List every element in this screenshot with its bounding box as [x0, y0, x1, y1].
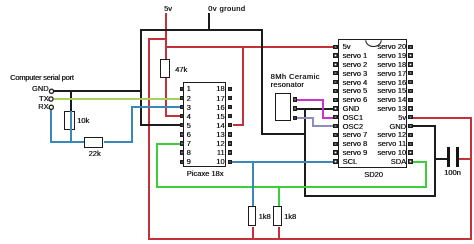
- U2 right pin label servo 20: [361, 42, 406, 52]
- U2 right pin label servo 14: [361, 95, 406, 105]
- U1 label Picaxe 18x: [175, 169, 235, 179]
- value label 22k: [89, 149, 101, 159]
- U2 right pin label servo 15: [361, 86, 406, 96]
- U1 pin 13 stub: [228, 132, 232, 136]
- resistor 47k pull-up: [160, 59, 171, 78]
- resonator X1 8Mh ceramic body: [275, 93, 291, 121]
- U1 pin number 16: [205, 103, 225, 113]
- U2 left pin servo 7 stub: [333, 133, 337, 137]
- U2 left pin SCL stub: [333, 159, 337, 163]
- U2 left pin label servo 2: [343, 60, 368, 70]
- wire ground bottom rail: [304, 195, 436, 197]
- wire resistor R5 bottom to 5v rail: [278, 227, 280, 240]
- U2 right pin label servo 12: [361, 130, 406, 140]
- U2 left pin servo 6 stub: [333, 98, 337, 102]
- U2 left pin label servo 6: [343, 95, 368, 105]
- U2 left pin servo 5 stub: [333, 89, 337, 93]
- wire SDA green rail: [156, 186, 427, 188]
- wire 0v ground stub: [208, 13, 210, 31]
- U2 right pin GND stub: [408, 124, 412, 128]
- U1 pin 8 stub: [180, 150, 184, 154]
- wire capacitor left lead: [434, 158, 447, 160]
- resistor 1k8 SDA pull-up: [273, 206, 282, 226]
- wire resonator bottom pin lead: [296, 117, 314, 119]
- wire ground top rail: [140, 29, 263, 31]
- U1 pin 2 stub: [180, 96, 184, 100]
- wire resistor R2 bottom lead (blue, over body): [70, 111, 72, 143]
- U2 right pin servo 18 stub: [408, 62, 412, 66]
- resonator pin 2: [293, 106, 297, 110]
- U2 right pin label 5v: [361, 113, 406, 123]
- U1 pin number 9: [187, 157, 191, 167]
- U2 right pin servo 20 stub: [408, 45, 412, 49]
- U2 right pin 5v stub: [408, 115, 412, 119]
- U1 pin number 6: [187, 130, 191, 140]
- U1 pin number 14: [205, 121, 225, 131]
- wire 5v supply drop to 47k and pin4: [165, 13, 167, 117]
- resonator pin 1: [293, 97, 297, 101]
- U1 pin 5 stub: [180, 123, 184, 127]
- U1 pin 14 stub: [228, 123, 232, 127]
- serial port TX label: [19, 94, 49, 104]
- wire blue riser: [131, 106, 133, 143]
- U2 right pin label servo 19: [361, 51, 406, 61]
- U1 pin number 10: [205, 157, 225, 167]
- U2 right pin label servo 18: [361, 60, 406, 70]
- U1 pin number 13: [205, 130, 225, 140]
- U1 pin number 1: [187, 84, 191, 94]
- resonator label line1: [271, 72, 320, 82]
- wire 5v left drop: [148, 38, 150, 240]
- wire 5v tee left: [148, 38, 167, 40]
- wire GND drop to resistor R2 top: [70, 90, 72, 112]
- U2 left pin label servo 7: [343, 130, 368, 140]
- wire Picaxe pin7 lead: [156, 143, 182, 145]
- value label 10k: [77, 116, 89, 126]
- U2 left pin label servo 5: [343, 86, 368, 96]
- U1 pin 9 stub: [180, 160, 184, 164]
- serial port terminals: [44, 84, 60, 114]
- wire resistor R3 right lead: [104, 141, 133, 143]
- U1 pin number 18: [205, 84, 225, 94]
- wire Picaxe pin10 to SD20 SCL: [232, 161, 335, 163]
- U2 right pin label SDA: [361, 157, 406, 167]
- wire resonator top pin lead: [296, 99, 324, 101]
- U1 pin number 5: [187, 121, 191, 131]
- U1 pin 10 stub: [228, 160, 232, 164]
- op-amp U2 SD20 body: [338, 39, 407, 168]
- U2 left pin servo 3 stub: [333, 71, 337, 75]
- U2 right pin servo 14 stub: [408, 98, 412, 102]
- U1 pin 17 stub: [228, 96, 232, 100]
- serial port RX label: [19, 102, 49, 112]
- wire resistor R4 bottom to 5v rail: [252, 227, 254, 240]
- value label 47k: [175, 65, 187, 75]
- U2 left pin label servo 8: [343, 139, 368, 149]
- U2 left pin OSC1 stub: [333, 115, 337, 119]
- wire magenta drop: [322, 99, 324, 118]
- U2 left pin servo 9 stub: [333, 150, 337, 154]
- capacitor 100n plate left: [447, 147, 450, 167]
- wire ground to Picaxe pin5: [140, 124, 182, 126]
- U1 pin number 7: [187, 139, 191, 149]
- U2 left pin label servo 9: [343, 148, 368, 158]
- U1 pin number 15: [205, 112, 225, 122]
- resistor 10k: [64, 111, 75, 131]
- wire 5v to SD20 right 5v pin: [412, 117, 472, 119]
- U2 right pin label servo 10: [361, 148, 406, 158]
- U2 left pin OSC2 stub: [333, 124, 337, 128]
- wire 47k bottom to Picaxe pin4: [165, 115, 183, 117]
- U2 right pin label servo 13: [361, 104, 406, 114]
- U2 left pin label OSC1: [343, 113, 363, 123]
- U2 right pin servo 17 stub: [408, 71, 412, 75]
- U1 pin 3 stub: [180, 105, 184, 109]
- wire SDA riser: [425, 161, 427, 188]
- U2 left pin label SCL: [343, 157, 358, 167]
- U2 right pin servo 15 stub: [408, 89, 412, 93]
- op-amp U1 Picaxe 18x body: [183, 82, 227, 167]
- U2 right pin servo 10 stub: [408, 150, 412, 154]
- U2 label SD20: [354, 170, 394, 180]
- wire green drop to resistor R5: [278, 186, 280, 207]
- U1 pin 18 stub: [228, 87, 232, 91]
- U2 right pin servo 12 stub: [408, 133, 412, 137]
- U2 right pin label servo 17: [361, 69, 406, 79]
- wire 5v right riser: [470, 117, 472, 240]
- U2 left pin label OSC2: [343, 122, 363, 132]
- U1 pin 12 stub: [228, 141, 232, 145]
- U2 right pin label servo 16: [361, 78, 406, 88]
- wire RX drop: [50, 109, 52, 143]
- resonator label line2: [271, 80, 305, 90]
- U2 right pin servo 13 stub: [408, 106, 412, 110]
- U1 pin number 3: [187, 103, 191, 113]
- U2 orientation notch: [365, 40, 382, 48]
- node 0v ground label: [208, 4, 245, 14]
- U1 pin 6 stub: [180, 132, 184, 136]
- U2 left pin servo 2 stub: [333, 62, 337, 66]
- U2 left pin servo 4 stub: [333, 80, 337, 84]
- wire TX to Picaxe pin2: [54, 98, 182, 100]
- wire to SD20 OSC1: [322, 117, 336, 119]
- U1 pin 16 stub: [228, 105, 232, 109]
- U1 pin 11 stub: [228, 150, 232, 154]
- wire to Picaxe pin14: [233, 124, 244, 126]
- wire RX to resistor R3: [50, 141, 85, 143]
- U1 pin number 4: [187, 112, 191, 122]
- U2 left pin label 5v: [343, 42, 351, 52]
- wire ground left edge: [140, 29, 142, 126]
- U2 right pin servo 19 stub: [408, 53, 412, 57]
- wire 5v drop to Picaxe pin14: [242, 46, 244, 127]
- wire ground jog: [261, 133, 306, 135]
- U2 right pin label servo 11: [361, 139, 406, 149]
- wire SD20 right GND lead: [412, 125, 436, 127]
- U1 pin 1 stub: [180, 87, 184, 91]
- wire capacitor right lead: [458, 158, 472, 160]
- wire lavender drop: [312, 118, 314, 126]
- wire resonator mid pin to SD20 GND: [296, 108, 335, 110]
- resistor 22k: [84, 137, 103, 148]
- U1 pin number 2: [187, 94, 191, 104]
- node 5v supply label: [164, 4, 172, 14]
- wire ground right edge: [261, 29, 263, 135]
- resonator pin 3: [293, 116, 297, 120]
- U2 right pin servo 11 stub: [408, 142, 412, 146]
- U2 left pin label servo 1: [343, 51, 368, 61]
- U2 left pin servo 1 stub: [333, 53, 337, 57]
- U1 pin 15 stub: [228, 114, 232, 118]
- U1 pin number 12: [205, 139, 225, 149]
- U2 left pin GND stub: [333, 106, 337, 110]
- wire 5v bottom rail: [148, 238, 473, 240]
- wire resonator mid vertical: [304, 108, 306, 197]
- wire to Picaxe pin3: [131, 106, 182, 108]
- U1 pin number 17: [205, 94, 225, 104]
- value label 100n: [444, 168, 461, 178]
- resistor 1k8 SCL pull-up: [248, 206, 257, 226]
- value label 1k8 (second): [284, 212, 296, 222]
- U2 right pin SDA stub: [408, 159, 412, 163]
- capacitor 100n plate right: [456, 147, 459, 167]
- serial port title: [10, 73, 74, 83]
- wire ground riser to SD20 right GND: [434, 125, 436, 197]
- U2 left pin label GND: [343, 104, 360, 114]
- U2 left pin label servo 4: [343, 78, 368, 88]
- U1 pin number 8: [187, 148, 191, 158]
- U1 pin number 11: [205, 148, 225, 158]
- U2 left pin label servo 3: [343, 69, 368, 79]
- serial port GND label: [19, 84, 49, 94]
- value label 1k8 (first): [259, 212, 271, 222]
- wire to SD20 OSC2: [312, 125, 335, 127]
- wire pin7 drop: [156, 143, 158, 188]
- wire serial GND to ground net: [53, 90, 142, 92]
- U1 pin 7 stub: [180, 141, 184, 145]
- U2 right pin label GND: [361, 122, 406, 132]
- U2 right pin servo 16 stub: [408, 80, 412, 84]
- U2 left pin servo 8 stub: [333, 142, 337, 146]
- U1 pin 4 stub: [180, 114, 184, 118]
- U2 left pin 5v stub: [333, 45, 337, 49]
- wire SD20 SDA lead: [412, 161, 427, 163]
- wire blue drop to resistor R4: [252, 161, 254, 208]
- wire 5v to SD20 left 5v pin: [165, 46, 336, 48]
